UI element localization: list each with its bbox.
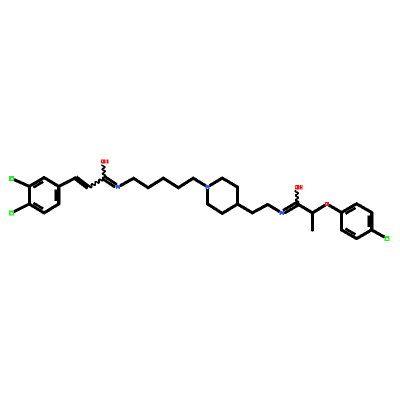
label N2 <box>206 185 210 189</box>
bond C4-C5 <box>297 204 312 213</box>
bond d2-N3 <box>268 205 279 212</box>
benzene ring 2 bond F-A <box>340 213 343 230</box>
benzene ring 1 bond B-LR <box>44 204 59 213</box>
benzene ring 1 bond T-UL (double) <box>29 178 44 187</box>
bond C5-O3 <box>313 206 325 213</box>
label OH left <box>101 159 106 163</box>
bond d1-d2 <box>252 205 267 213</box>
piperidine bond PLR-PB <box>222 204 237 213</box>
benzene ring 2 bond B-C <box>357 204 372 213</box>
piperidine bond PUR-PLR <box>236 187 239 204</box>
label Cl1 <box>9 176 14 181</box>
benzene ring 2 bond A-B (double) <box>342 204 357 213</box>
benzene ring 2 bond E-F (double) <box>342 230 357 239</box>
label Cl3 <box>384 236 389 241</box>
bond c3-c4 <box>163 178 178 188</box>
bond PLR-d1 <box>238 204 253 213</box>
label Cl2 <box>9 210 14 215</box>
benzene ring 1 bond UR-T <box>44 178 59 187</box>
label N1 <box>116 185 120 189</box>
vinyl C=C double bond <box>75 179 88 189</box>
wavy bond CH=C(OH) <box>90 177 104 187</box>
bond C5-methyl <box>311 213 314 230</box>
bond ring1-vinyl <box>59 178 76 187</box>
wavy bond C-OH left <box>102 165 106 177</box>
bond N1-c1 <box>121 178 134 185</box>
benzene ring 1 bond LR-UR (double) <box>57 186 60 204</box>
piperidine bond PT-PUR <box>222 178 237 187</box>
bond c4-c5 <box>178 178 193 188</box>
C=N1 double bond <box>103 179 114 186</box>
label N3 <box>280 211 284 215</box>
piperidine bond PB-PLL <box>208 204 223 213</box>
benzene ring 1 bond LL-B (double) <box>29 204 44 213</box>
N3=C4 double bond <box>286 205 299 212</box>
bond ring2-Cl3 <box>372 230 384 237</box>
bond c5-N2 <box>193 178 205 185</box>
label O3 <box>325 202 329 206</box>
benzene ring 1 bond UL-LL <box>28 186 31 204</box>
benzene ring 2 bond D-E <box>357 230 372 239</box>
benzene ring 2 bond C-D (double) <box>370 213 373 230</box>
piperidine bond PLL-N2 <box>206 190 209 204</box>
bond Cl2 to ring 1 <box>15 204 30 211</box>
label OH right <box>295 185 300 189</box>
bond Cl1 to ring 1 <box>15 180 29 186</box>
bond c1-c2 <box>134 178 149 187</box>
bond O3-ring2 <box>330 206 342 213</box>
bond c2-c3 <box>148 178 163 188</box>
piperidine bond N2-PT <box>210 178 222 185</box>
wavy bond C-OH right <box>295 191 298 203</box>
